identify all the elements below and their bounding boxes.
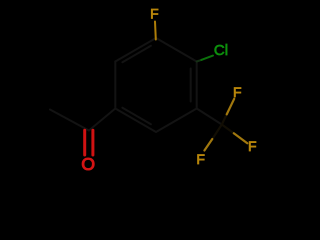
wire bond C-F top [154,22,157,40]
wire bond ring to CF3 carbon [197,109,222,125]
wire ring bond V4-V5 [115,109,156,133]
svg-text:F: F [233,84,242,100]
wire ring inner double bond V6-V1 [122,46,150,63]
wire bond CF3 to F bottom-left fluorine half [204,139,212,151]
wire double bond C=O line 2 [91,130,94,155]
wire ring bond V1-V2 [156,38,197,62]
wire ring bond V6-V1 [115,38,156,62]
svg-text:F: F [196,151,205,167]
wire ring inner double bond V4-V5 [122,108,150,125]
wire bond C-Cl inner carbon half [197,60,202,62]
wire double bond C=O line 1 [83,130,86,155]
wire ring inner double bond V2-V3 [190,69,192,102]
wire bond CF3 to F top fluorine half [227,99,235,115]
wire bond CF3 to F right fluorine half [234,133,248,143]
wire bond ring to carbonyl carbon [89,109,115,131]
svg-text:F: F [150,6,159,22]
wire bond CF3 to F right carbon half [222,125,234,134]
wire bond C-Cl outer chlorine half [201,56,213,60]
wire bond carbonyl carbon to methyl [50,110,89,131]
wire bond CF3 to F bottom-left carbon half [212,125,222,140]
wire ring bond V2-V3 [196,62,198,109]
svg-text:O: O [81,154,95,174]
wire ring bond V5-V6 [114,62,116,109]
svg-text:F: F [248,138,257,154]
svg-text:Cl: Cl [214,42,228,59]
wire ring bond V3-V4 [156,109,197,133]
wire bond CF3 to F top carbon half [222,114,227,124]
